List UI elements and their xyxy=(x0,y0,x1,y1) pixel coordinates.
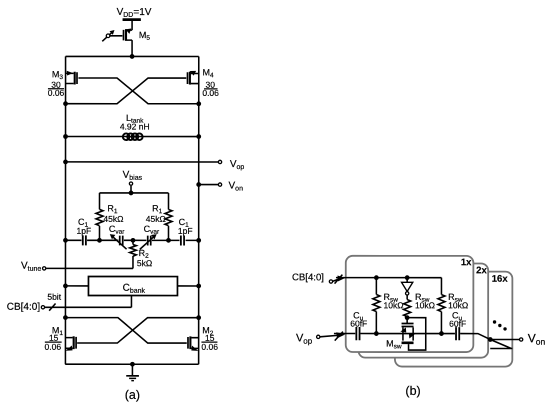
svg-text:1pF: 1pF xyxy=(76,226,91,236)
svg-text:1pF: 1pF xyxy=(178,226,193,236)
svg-text:60fF: 60fF xyxy=(350,319,367,329)
svg-text:0.06: 0.06 xyxy=(201,342,218,352)
svg-text:0.06: 0.06 xyxy=(45,342,62,352)
svg-text:45kΩ: 45kΩ xyxy=(103,214,123,224)
svg-text:10kΩ: 10kΩ xyxy=(415,300,435,310)
svg-text:CB[4:0]: CB[4:0] xyxy=(7,302,41,313)
svg-text:10kΩ: 10kΩ xyxy=(384,300,404,310)
svg-text:0.06: 0.06 xyxy=(202,88,219,98)
svg-text:4.92 nH: 4.92 nH xyxy=(120,122,150,132)
svg-text:2x: 2x xyxy=(476,265,487,276)
svg-text:16x: 16x xyxy=(492,274,509,285)
svg-text:5bit: 5bit xyxy=(47,292,61,302)
svg-text:1x: 1x xyxy=(461,257,472,268)
svg-text:60fF: 60fF xyxy=(449,319,466,329)
svg-text:(a): (a) xyxy=(125,388,140,402)
svg-text:(b): (b) xyxy=(405,384,420,398)
svg-text:VDD=1V: VDD=1V xyxy=(117,7,152,19)
svg-text:5kΩ: 5kΩ xyxy=(137,258,152,268)
svg-text:0.06: 0.06 xyxy=(48,88,65,98)
svg-text:10kΩ: 10kΩ xyxy=(448,300,468,310)
svg-text:45kΩ: 45kΩ xyxy=(146,214,166,224)
svg-text:CB[4:0]: CB[4:0] xyxy=(292,272,324,283)
